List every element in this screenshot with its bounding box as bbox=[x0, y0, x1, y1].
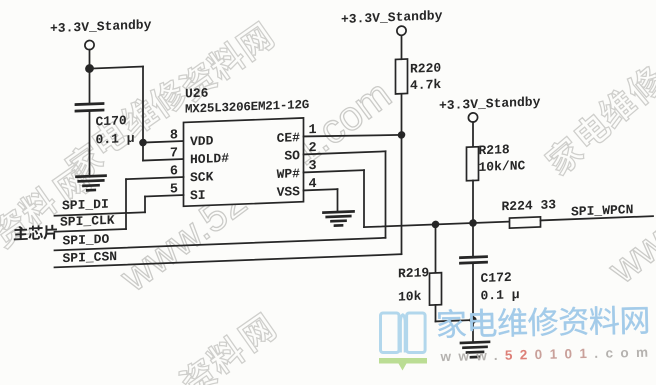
ground 3 bbox=[461, 342, 489, 343]
svg-text:R224 33: R224 33 bbox=[502, 197, 557, 214]
wire bbox=[472, 180, 474, 223]
logo url www.520101.com bbox=[439, 345, 655, 365]
wire bbox=[89, 111, 91, 177]
ground 2 VSS bbox=[324, 211, 354, 212]
junction R219 bbox=[432, 220, 440, 228]
capacitor C170 bbox=[76, 104, 103, 105]
wire bbox=[401, 94, 403, 135]
wire bbox=[125, 179, 127, 229]
svg-text:8: 8 bbox=[170, 128, 178, 143]
wire bbox=[385, 151, 387, 238]
chip U26 body bbox=[184, 118, 304, 206]
svg-text:SO: SO bbox=[284, 148, 300, 164]
wire bbox=[401, 35, 403, 59]
wire SPI_WPCN right bbox=[541, 216, 654, 220]
wire bbox=[363, 170, 365, 227]
junction bbox=[85, 64, 94, 73]
wire pin5 SI bbox=[145, 195, 184, 196]
wire pin1 CE# bbox=[304, 133, 402, 139]
svg-text:4.7k: 4.7k bbox=[410, 77, 441, 93]
wire R219 to gnd node bbox=[436, 320, 474, 321]
svg-text:7: 7 bbox=[170, 146, 178, 161]
power terminal 1 bbox=[85, 40, 94, 50]
junction C172/R218 bbox=[469, 219, 477, 227]
wire pin3 WP# bbox=[304, 170, 365, 172]
resistor R219 bbox=[430, 273, 442, 305]
watermark diagonal 3 (bottom) bbox=[176, 312, 278, 385]
svg-text:SPI_CLK: SPI_CLK bbox=[60, 213, 115, 230]
svg-text:0.1 μ: 0.1 μ bbox=[96, 131, 135, 147]
power terminal 2 bbox=[397, 26, 406, 36]
ground 1 bbox=[77, 176, 106, 177]
svg-text:C172: C172 bbox=[480, 270, 511, 286]
wire bbox=[89, 50, 91, 104]
svg-text:SCK: SCK bbox=[190, 169, 214, 185]
svg-text:C170: C170 bbox=[96, 113, 127, 129]
svg-text:R220: R220 bbox=[410, 60, 441, 76]
svg-text:SI: SI bbox=[190, 188, 206, 204]
wire SPI_DI bbox=[55, 212, 146, 215]
svg-text:SPI_DI: SPI_DI bbox=[62, 197, 109, 214]
resistor R224 bbox=[510, 217, 541, 228]
wire bbox=[144, 196, 146, 212]
wire bbox=[435, 305, 437, 322]
wire SPI_CSN bbox=[55, 254, 402, 267]
resistor R218 bbox=[467, 147, 479, 181]
svg-text:SPI_WPCN: SPI_WPCN bbox=[571, 202, 633, 219]
wire bbox=[472, 223, 474, 257]
wire SPI_CLK bbox=[55, 229, 127, 232]
wire CE# to SPI_CSN bbox=[401, 135, 403, 254]
svg-text:R219: R219 bbox=[398, 265, 429, 281]
power terminal 3 bbox=[468, 113, 477, 123]
capacitor C172 bbox=[461, 255, 487, 259]
logo book base (green) bbox=[379, 358, 427, 371]
watermark diagonal 2 (right) bbox=[542, 62, 656, 178]
wire SPI_WPCN left bbox=[364, 222, 510, 228]
wire bbox=[337, 189, 339, 212]
label main-chip (Chinese) bbox=[14, 226, 28, 241]
svg-text:VDD: VDD bbox=[190, 133, 214, 149]
svg-text:SPI_CSN: SPI_CSN bbox=[63, 249, 118, 266]
svg-text:SPI_DO: SPI_DO bbox=[63, 232, 110, 249]
wire pin6 SCK bbox=[126, 177, 184, 179]
svg-text:R218: R218 bbox=[479, 142, 510, 158]
logo text (Chinese) bbox=[437, 305, 648, 338]
svg-text:WP#: WP# bbox=[277, 166, 301, 182]
watermark diagonal 1 (top-left) bbox=[0, 21, 276, 250]
junction gnd node bbox=[469, 316, 476, 323]
svg-text:U26: U26 bbox=[185, 86, 209, 102]
wire pin8 bbox=[143, 141, 184, 143]
wire bbox=[472, 122, 474, 147]
wire bbox=[90, 67, 144, 69]
resistor R220 bbox=[396, 59, 408, 94]
junction bbox=[398, 131, 406, 139]
svg-text:CE#: CE# bbox=[277, 130, 301, 146]
svg-text:10k: 10k bbox=[398, 289, 422, 305]
wire bbox=[472, 263, 474, 343]
logo book icon bbox=[381, 313, 426, 353]
wire pin4 VSS bbox=[304, 189, 338, 190]
svg-text:0.1 μ: 0.1 μ bbox=[480, 287, 519, 303]
svg-text:10k/NC: 10k/NC bbox=[479, 158, 526, 175]
wire bbox=[435, 224, 437, 273]
wire bbox=[142, 67, 144, 161]
wire pin2 SO bbox=[304, 151, 386, 154]
svg-text:VSS: VSS bbox=[277, 184, 301, 200]
wire SPI_DO bbox=[55, 238, 386, 251]
wire pin7 bbox=[143, 159, 184, 161]
junction bbox=[139, 139, 147, 147]
svg-text:HOLD#: HOLD# bbox=[190, 151, 229, 167]
